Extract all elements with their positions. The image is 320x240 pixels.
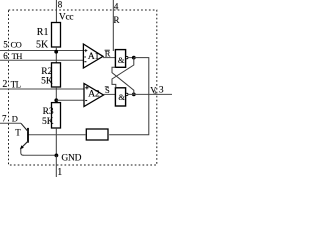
lead R2 to R3: [55, 87, 57, 103]
pin 4 lead (reset R): [112, 0, 114, 51]
op-amp comparator A1: [83, 44, 103, 68]
svg-text:&: &: [118, 92, 125, 102]
svg-text:TL: TL: [11, 79, 21, 89]
svg-text:Vcc: Vcc: [59, 12, 73, 22]
op-amp comparator A2: [84, 84, 104, 107]
wire gate1 output to node: [128, 57, 134, 59]
svg-text:5K: 5K: [42, 117, 54, 127]
A1 plus marker: [84, 49, 87, 52]
wire pin5 CO to A1 plus input: [0, 50, 83, 52]
node CO junction dot: [54, 50, 58, 54]
A1 minus marker: [84, 61, 86, 63]
node gate1 output dot: [132, 56, 136, 60]
svg-text:CO: CO: [11, 40, 22, 50]
lead R3 to ground node: [55, 128, 57, 155]
gate2 output bubble: [126, 93, 128, 95]
svg-text:GND: GND: [61, 154, 81, 164]
wire pin3 output: [128, 93, 172, 95]
gate1 output bubble: [126, 56, 128, 58]
svg-text:2: 2: [2, 79, 7, 90]
node divider junction dot: [54, 98, 58, 102]
wire pin7 D to transistor collector: [0, 122, 21, 124]
A2 minus marker: [85, 100, 87, 102]
dashed IC boundary box: [9, 10, 157, 165]
wire pin6 TH to A1 minus input: [0, 59, 83, 61]
svg-text:5: 5: [3, 39, 8, 49]
svg-text:A2: A2: [88, 89, 100, 100]
node gate2 output dot: [132, 93, 136, 97]
svg-text:6: 6: [3, 51, 8, 61]
svg-text:5K: 5K: [41, 76, 53, 86]
svg-text:1: 1: [57, 167, 62, 178]
resistor R3: [52, 103, 61, 128]
svg-text:4: 4: [114, 1, 119, 11]
svg-text:TH: TH: [12, 51, 23, 61]
A2 plus marker: [85, 86, 88, 89]
wire A1 output to gate1: [103, 57, 115, 59]
svg-text:R: R: [113, 15, 120, 25]
wire A2 output to gate2: [104, 93, 116, 95]
wire gate1 output feedback to base resistor: [109, 58, 149, 135]
lead R1 to R2: [55, 47, 57, 63]
svg-text:5K: 5K: [36, 39, 49, 50]
resistor R1: [52, 23, 61, 48]
wire divider node to A2 minus input: [56, 99, 84, 101]
nand gate U1: [115, 50, 125, 68]
svg-text:R3: R3: [43, 107, 54, 117]
svg-text:R1: R1: [37, 27, 49, 38]
wire cross-couple gate1 out to gate2 input: [112, 58, 134, 88]
node ground junction dot: [55, 154, 59, 158]
svg-text:T: T: [15, 127, 21, 137]
wire base resistor to transistor base: [28, 134, 86, 136]
wire cross-couple gate2 out to gate1 input: [112, 67, 134, 94]
wire pin2 TL to A2 plus input: [0, 88, 84, 90]
resistor base (unlabeled): [86, 129, 108, 140]
nand gate U2: [115, 88, 125, 106]
svg-text:7: 7: [2, 114, 7, 124]
transistor T: [27, 128, 29, 143]
svg-text:3: 3: [159, 86, 164, 96]
pin 8 lead (Vcc): [55, 0, 57, 23]
svg-text:8: 8: [58, 0, 63, 10]
svg-text:&: &: [118, 55, 125, 65]
pin 1 lead (ground): [55, 155, 57, 177]
svg-text:D: D: [12, 114, 18, 124]
svg-text:A1: A1: [88, 51, 100, 62]
resistor R2: [52, 63, 61, 87]
wire emitter to ground node: [23, 154, 56, 156]
svg-text:0: 0: [153, 90, 156, 96]
